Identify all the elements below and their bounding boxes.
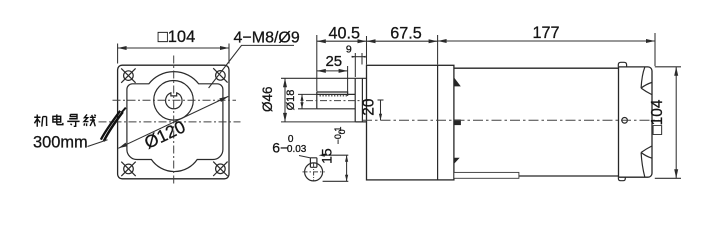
fan cover corner seam top [641, 67, 652, 94]
fan cover bottom mounting tab [618, 177, 625, 181]
svg-text:15: 15 [318, 148, 334, 164]
side view: output shaft [317, 92, 355, 109]
shaft axis centerline front view [113, 99, 237, 101]
svg-text:9: 9 [346, 43, 352, 55]
label 机电导线 (drawn glyphs) [34, 114, 96, 126]
bolt hole bottom-left [121, 162, 135, 176]
char 电 [53, 114, 63, 124]
svg-text:0.03: 0.03 [287, 144, 307, 155]
key detail crosshair [303, 171, 325, 173]
key on shaft [317, 92, 348, 96]
fan cover center hole [622, 118, 628, 124]
svg-text:Ø18: Ø18 [285, 90, 297, 111]
dimension φ46 [260, 78, 355, 122]
svg-text:67.5: 67.5 [390, 24, 422, 42]
label 4-M8/φ9 with leader [209, 29, 300, 88]
dimension 9 [346, 43, 366, 77]
dimension square 104 [118, 28, 229, 64]
leader 6-0.03 [299, 156, 310, 158]
label 6-0.03 [272, 134, 307, 156]
fan cover top mounting tab [618, 62, 626, 67]
dimension φ18 [285, 90, 317, 111]
fan cover corner seam bottom [641, 146, 652, 177]
char 机 [34, 115, 47, 127]
vertical centerline front view [173, 56, 175, 186]
svg-text:300mm: 300mm [33, 133, 88, 151]
bolt hole top-right [213, 68, 227, 82]
output boss circle φ46 [154, 81, 194, 121]
shaft boss φ46 [355, 78, 366, 122]
motor lead wire [104, 112, 123, 141]
fan cover end cap [619, 67, 653, 177]
gearbox joint line [437, 65, 439, 180]
char 线 [84, 114, 96, 126]
dimension square 104 motor [649, 67, 681, 179]
front view: gearbox flange square [118, 65, 229, 179]
svg-text:40.5: 40.5 [328, 24, 360, 42]
motor axis centerline [362, 119, 659, 121]
dimension 20 offset [361, 98, 384, 120]
svg-text:177: 177 [532, 24, 559, 42]
key section detail circle [305, 158, 323, 181]
svg-text:20: 20 [361, 98, 378, 116]
svg-text:Ø46: Ø46 [260, 86, 275, 112]
clamp wedge bottom [454, 158, 460, 164]
output shaft circle φ18 with keyway [166, 93, 182, 109]
dimension 177 [438, 24, 655, 66]
svg-text:6−: 6− [272, 140, 288, 156]
bolt hole bottom-right [213, 162, 227, 176]
dimension 15 [318, 127, 348, 182]
clamp wedge top [454, 77, 461, 86]
svg-text:−0.1: −0.1 [333, 127, 343, 145]
clamp block center [454, 120, 461, 126]
gearbox housing profile [127, 72, 223, 172]
dimension 25 [317, 53, 348, 96]
char 导 [67, 114, 79, 126]
svg-text:□104: □104 [649, 99, 666, 135]
dimension 40.5 [317, 24, 367, 91]
motor body [454, 68, 619, 176]
svg-text:4−M8/Ø9: 4−M8/Ø9 [234, 29, 300, 46]
bolt hole top-left [121, 68, 135, 82]
square axis centerline front view [99, 121, 241, 123]
svg-text:□104: □104 [158, 28, 196, 46]
leader for 300mm [88, 140, 108, 147]
dimension 67.5 [367, 24, 438, 64]
nameplate [454, 172, 519, 178]
shaft axis centerline [306, 100, 369, 102]
svg-text:25: 25 [325, 53, 342, 70]
gearbox body [367, 65, 454, 180]
dimension φ120 diagonal [118, 96, 228, 152]
keyway hidden line [320, 95, 348, 97]
